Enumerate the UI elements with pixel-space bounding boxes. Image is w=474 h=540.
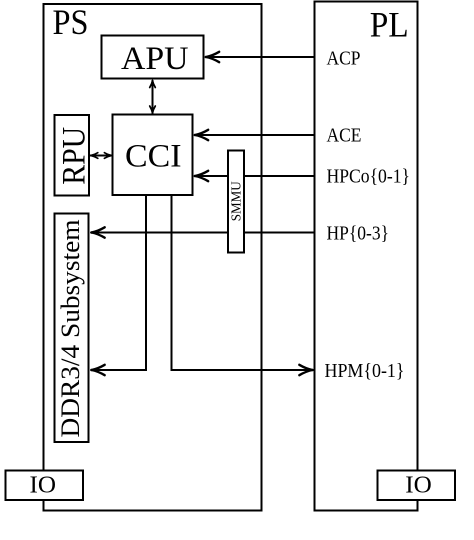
PL block outline	[315, 2, 418, 511]
svg-text:ACE: ACE	[327, 125, 362, 147]
IO box right	[378, 471, 456, 501]
wire HPM : CCI down to PL	[172, 195, 314, 370]
arrowhead up into APU	[150, 81, 156, 88]
arrowhead HPM into PL	[299, 365, 312, 375]
wire HP : PL to DDR subsystem (passes behind SMMU)	[91, 232, 315, 234]
arrowhead HPC into CCI	[195, 171, 208, 181]
wire RPU-CCI double arrow	[90, 155, 112, 157]
arrowhead down into CCI	[150, 106, 156, 113]
wire APU-CCI double arrow	[152, 80, 154, 114]
IO box left	[6, 471, 84, 501]
RPU box	[55, 115, 90, 196]
svg-text:HPM{0-1}: HPM{0-1}	[325, 360, 405, 382]
wire HPC : PL to CCI (passes behind SMMU)	[194, 175, 314, 177]
svg-text:SMMU: SMMU	[230, 181, 245, 221]
arrowhead right into CCI	[104, 153, 111, 159]
svg-text:HPCo{0-1}: HPCo{0-1}	[327, 166, 411, 188]
svg-text:RPU: RPU	[57, 127, 93, 185]
arrowhead ACP into APU	[206, 52, 219, 62]
svg-text:ACP: ACP	[327, 48, 361, 70]
svg-text:CCI: CCI	[125, 139, 182, 175]
wire ACE : PL to CCI	[194, 134, 314, 136]
svg-text:DDR3/4 Subsystem: DDR3/4 Subsystem	[56, 220, 85, 438]
wire CCI down to DDR	[91, 195, 147, 370]
svg-text:APU: APU	[121, 41, 189, 77]
svg-text:IO: IO	[30, 473, 57, 499]
svg-text:PS: PS	[53, 2, 89, 42]
svg-text:HP{0-3}: HP{0-3}	[327, 223, 390, 245]
svg-text:IO: IO	[405, 473, 432, 499]
APU box	[102, 36, 204, 79]
arrowhead left into RPU	[91, 153, 98, 159]
SMMU box (covers HPC and HP wires)	[228, 151, 244, 253]
arrowhead HP into DDR	[91, 227, 104, 237]
arrowhead ACE into CCI	[195, 130, 208, 140]
PS block outline	[44, 4, 262, 511]
svg-text:PL: PL	[370, 5, 409, 45]
CCI box	[113, 115, 193, 196]
DDR3/4 Subsystem box	[55, 214, 89, 443]
arrowhead CCI-to-DDR	[91, 365, 104, 375]
wire ACP : PL to APU	[205, 56, 314, 58]
